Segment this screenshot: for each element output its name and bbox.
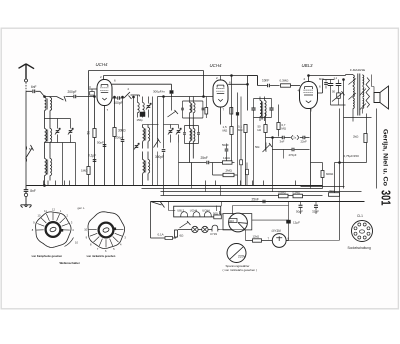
wire osc h top	[143, 124, 159, 126]
svg-text:Wellenschalter: Wellenschalter	[60, 261, 81, 265]
capacitor 3nF det	[280, 136, 285, 144]
transformer primary	[346, 75, 355, 122]
capacitor 12uF	[287, 202, 301, 241]
svg-text:0,1A: 0,1A	[158, 232, 164, 236]
IF1a frame	[183, 101, 203, 118]
svg-text:UCH4: UCH4	[190, 209, 198, 213]
capacitor 0.1uF	[88, 154, 96, 162]
svg-text:10nF: 10nF	[262, 79, 269, 83]
svg-text:50pF: 50pF	[97, 141, 104, 145]
transformer label	[350, 68, 365, 72]
tube U3 pins	[298, 77, 322, 113]
diode arrows det	[291, 135, 299, 140]
antenna	[19, 64, 35, 91]
tube U1 UCH4	[96, 62, 113, 106]
wire to C2	[66, 96, 96, 98]
wire U3 top	[308, 75, 346, 82]
heater box	[174, 206, 221, 217]
svg-text:von rückwärts gesehen: von rückwärts gesehen	[87, 254, 116, 258]
selector frame	[223, 214, 252, 230]
brand text	[382, 129, 389, 186]
svg-text:150p: 150p	[137, 118, 144, 122]
trimmer C8	[146, 97, 151, 118]
svg-text:8nF: 8nF	[30, 189, 36, 193]
svg-text:Sockelschaltung: Sockelschaltung	[348, 246, 371, 250]
IF1a coil pair	[190, 97, 196, 119]
wire left vert b	[75, 143, 77, 186]
resistor 0.1M	[238, 125, 247, 186]
IF2 caps	[251, 99, 273, 118]
resistor R5 1.5M	[223, 75, 234, 163]
svg-text:25nF: 25nF	[201, 156, 208, 160]
svg-text:200pF: 200pF	[68, 90, 77, 94]
potentiometer tone	[332, 91, 345, 101]
wire det h1	[266, 137, 310, 139]
capacitor 50nF	[222, 143, 229, 163]
wire U3 anode top	[323, 79, 335, 81]
capacitor 50uF	[296, 202, 303, 215]
IF1 frame	[185, 126, 199, 144]
pot heater	[180, 221, 191, 228]
svg-text:25nF: 25nF	[252, 197, 259, 201]
wire x366 down	[366, 114, 368, 163]
capacitor C9 black	[137, 112, 146, 122]
wire U2 cathode	[220, 107, 222, 125]
resistor R4c	[205, 97, 208, 119]
capacitor 100pF series	[112, 96, 123, 105]
svg-text:470pF: 470pF	[289, 153, 297, 157]
caption von rueckwaerts	[87, 254, 116, 258]
wire x339 down	[339, 109, 341, 241]
IF2 frame	[254, 99, 272, 186]
wire x220 tail	[221, 147, 225, 151]
wire lamp row	[178, 229, 220, 231]
resistor 50 tone	[332, 89, 340, 105]
caption Wellenschalter	[60, 261, 81, 265]
svg-text:12kΩ: 12kΩ	[223, 156, 231, 160]
capacitor 100pF k	[115, 96, 124, 185]
resistor 2M h	[213, 163, 238, 186]
capacitor out a	[328, 76, 338, 105]
svg-text:gez. L: gez. L	[78, 206, 86, 210]
capacitor 25nF bus	[252, 197, 265, 203]
wire U2 anode	[228, 76, 257, 111]
bus stubs 2	[191, 186, 310, 196]
tube U2 UCH4	[210, 63, 229, 107]
wire mains left	[150, 202, 152, 239]
switch S1 earth	[26, 145, 34, 162]
svg-text:6nF: 6nF	[31, 85, 37, 89]
capacitor 300pF	[155, 96, 165, 196]
wire y186 right	[301, 185, 345, 187]
label gez	[78, 206, 86, 210]
resistor 0.7M	[267, 105, 286, 137]
capacitor out b	[336, 80, 342, 93]
fuse 0.1A	[151, 232, 177, 239]
socket CL1	[352, 214, 373, 242]
padder trimmer b	[176, 125, 181, 143]
tube UY1N	[264, 229, 290, 247]
wire padder top	[164, 124, 179, 126]
svg-text:MΩ: MΩ	[282, 126, 286, 130]
resistor 12k h	[223, 156, 235, 164]
resistor 600 v	[321, 163, 334, 189]
trimmer C4	[68, 119, 73, 143]
resistor 50ohm	[213, 202, 221, 219]
wire u2 region h	[158, 96, 214, 98]
label 075uF	[344, 154, 360, 158]
caption Sockelschaltung	[348, 246, 371, 250]
voltage selector	[229, 213, 248, 232]
heavy bus	[151, 201, 365, 203]
svg-text:220v: 220v	[238, 255, 246, 259]
wire x334 down	[334, 163, 336, 193]
coil L3 pair	[29, 119, 52, 152]
wire heater conn	[169, 202, 217, 212]
resistor 5k	[329, 189, 340, 197]
resistor R1 50k	[87, 96, 97, 186]
wire x184 x198 tail	[198, 144, 200, 159]
selector wires	[220, 206, 289, 215]
svg-text:32µF: 32µF	[312, 209, 319, 213]
svg-text:Gerija, Niel u. Co: Gerija, Niel u. Co	[382, 129, 389, 186]
coil L6 osc	[143, 152, 150, 186]
padder trimmer a	[168, 125, 173, 143]
svg-text:0,1µF: 0,1µF	[88, 154, 96, 158]
brand number 301	[379, 190, 393, 206]
svg-text:50nF: 50nF	[222, 143, 229, 147]
bus 2	[142, 188, 323, 190]
svg-text:50µF: 50µF	[296, 209, 303, 213]
wave switch dial front	[32, 207, 79, 247]
capacitor 50pF	[97, 141, 106, 147]
wire antenna to C1	[26, 91, 57, 96]
svg-text:( von rückwärts gesehen ): ( von rückwärts gesehen )	[223, 268, 258, 272]
wire bus B	[104, 76, 258, 80]
svg-text:3nF: 3nF	[280, 139, 285, 143]
tube U3 UBL3	[300, 63, 318, 109]
svg-text:0,3MΩ: 0,3MΩ	[280, 79, 290, 83]
svg-text:UBL3: UBL3	[302, 63, 314, 68]
wire x283 v	[283, 150, 285, 159]
bus 3	[161, 191, 362, 193]
bus stubs	[44, 181, 296, 186]
svg-text:UY1N: UY1N	[210, 232, 217, 236]
switch S5	[168, 97, 179, 118]
wire band top	[45, 118, 71, 120]
svg-text:2MΩ: 2MΩ	[226, 169, 233, 173]
resistor 6ohm	[175, 230, 185, 239]
resistor R2 30k	[113, 96, 126, 185]
svg-text:50Ω: 50Ω	[213, 211, 218, 215]
svg-text:MΩ: MΩ	[238, 128, 242, 132]
resistor 0.3M grid	[280, 79, 301, 88]
wire x272 down	[272, 137, 274, 186]
resistor 12k ps	[246, 234, 264, 242]
svg-text:300µF/m: 300µF/m	[153, 90, 165, 94]
svg-text:0,75µF/150: 0,75µF/150	[344, 154, 360, 158]
resistor 2k	[353, 126, 367, 151]
svg-text:12µF: 12µF	[293, 221, 300, 225]
wire band bottom	[44, 143, 76, 187]
wire x203 down	[203, 71, 205, 98]
wire x152 down	[152, 97, 154, 186]
svg-text:50: 50	[332, 89, 336, 93]
svg-text:von Kampfseite gesehen: von Kampfseite gesehen	[32, 254, 63, 258]
coil L7 pair	[138, 95, 145, 118]
speaker field zigzag	[366, 78, 370, 108]
tube U2 pins	[216, 76, 231, 112]
wire rect left	[220, 230, 246, 241]
wire mid right h	[335, 162, 367, 164]
wire x190 down	[191, 163, 193, 186]
capacitor 470pF	[272, 148, 310, 157]
wire x178 down	[178, 143, 180, 186]
wire y163 left	[311, 162, 323, 164]
caption von vorne	[32, 254, 63, 258]
caption Spannungswaehler	[223, 264, 258, 272]
svg-text:300pF: 300pF	[155, 155, 164, 159]
switch S2	[57, 96, 67, 102]
wire U1 anode	[112, 84, 173, 96]
coil L5 osc	[143, 125, 150, 149]
wire x245 down	[240, 97, 249, 186]
contact circle gnd	[24, 193, 27, 204]
wire U3 anode	[318, 80, 323, 94]
capacitor 25nF mid	[179, 156, 223, 164]
svg-text:22nF: 22nF	[301, 139, 308, 143]
wire speaker down	[376, 109, 378, 189]
svg-text:UY1N: UY1N	[272, 229, 282, 233]
capacitor 6nF	[31, 85, 37, 93]
wire to bandfilter2	[131, 95, 140, 97]
coil L4 pair	[45, 145, 52, 186]
resistor 0.5M b	[293, 191, 303, 198]
switch S4 osc	[154, 138, 161, 148]
svg-text:600Ω: 600Ω	[326, 172, 334, 176]
circle 220v	[227, 244, 246, 263]
dial lamp 2	[202, 226, 208, 232]
wire speaker top	[372, 75, 375, 93]
capacitor 8nF gnd	[24, 186, 36, 194]
svg-text:0,5MΩ: 0,5MΩ	[278, 191, 286, 195]
wire bf2 down	[133, 96, 135, 185]
bus 4	[161, 195, 323, 197]
svg-text:kΩ: kΩ	[258, 128, 262, 132]
svg-text:CL1: CL1	[357, 214, 363, 218]
coil L1 L2	[45, 97, 52, 119]
wire U3 cathode	[310, 109, 312, 186]
resistor R3 1M	[81, 89, 90, 186]
speaker	[374, 86, 389, 109]
svg-text:12kΩ: 12kΩ	[253, 234, 260, 238]
svg-text:UCH4: UCH4	[210, 63, 223, 68]
mains switch	[151, 202, 165, 208]
tone frame	[331, 79, 346, 189]
wire bus A	[89, 71, 204, 89]
transformer core	[358, 74, 360, 116]
wire y117 B+	[344, 117, 372, 119]
trimmer C5 osc	[134, 143, 139, 149]
svg-text:UCH4: UCH4	[96, 62, 109, 67]
tube U1 pins	[89, 75, 117, 112]
IF1 trim caps	[183, 126, 200, 144]
IF1 coil pair	[190, 118, 195, 163]
switch S3 mixer	[120, 87, 131, 99]
capacitor 32uF	[312, 202, 319, 215]
wire antenna down	[26, 91, 45, 185]
svg-text:0,5MΩ: 0,5MΩ	[293, 191, 301, 195]
capacitor 200pF	[68, 90, 77, 98]
svg-text:1MΩ: 1MΩ	[81, 169, 88, 173]
ground symbol	[21, 205, 32, 208]
wire left vert a	[62, 143, 64, 186]
wire U1 cathode down	[104, 106, 106, 186]
IF1a caps	[181, 101, 204, 118]
svg-text:30kΩ: 30kΩ	[118, 129, 126, 133]
volume pot	[255, 143, 272, 153]
wire rect right	[252, 220, 339, 240]
svg-text:5kΩ: 5kΩ	[330, 189, 335, 193]
resistor 50k v	[258, 114, 268, 151]
svg-text:1,1: 1,1	[334, 76, 338, 80]
IF2 coil pair	[260, 97, 266, 122]
capacitor U2 anode	[236, 93, 239, 176]
svg-text:301: 301	[379, 190, 393, 206]
transformer secondary	[363, 75, 364, 114]
svg-text:50k: 50k	[255, 145, 260, 149]
capacitor 22nF det	[301, 136, 308, 144]
svg-text:F-MA40/1E: F-MA40/1E	[350, 68, 365, 72]
dial lamp 1	[192, 226, 198, 232]
resistor 0.5M a	[278, 191, 288, 198]
trimmer C3	[55, 119, 60, 143]
wave switch dial rear	[84, 212, 126, 253]
heater bump UY1N	[210, 225, 218, 236]
ground bus	[27, 185, 323, 187]
transformer tap arrows	[349, 79, 367, 111]
svg-text:110: 110	[230, 219, 235, 223]
capacitor 8nF out	[319, 77, 328, 89]
wire x157 down	[157, 97, 159, 186]
socket pins	[354, 223, 370, 239]
svg-text:8nF: 8nF	[319, 77, 324, 81]
svg-text:MΩ: MΩ	[223, 129, 228, 133]
svg-text:2kΩ: 2kΩ	[353, 135, 359, 139]
capacitor 10nF	[258, 76, 280, 88]
